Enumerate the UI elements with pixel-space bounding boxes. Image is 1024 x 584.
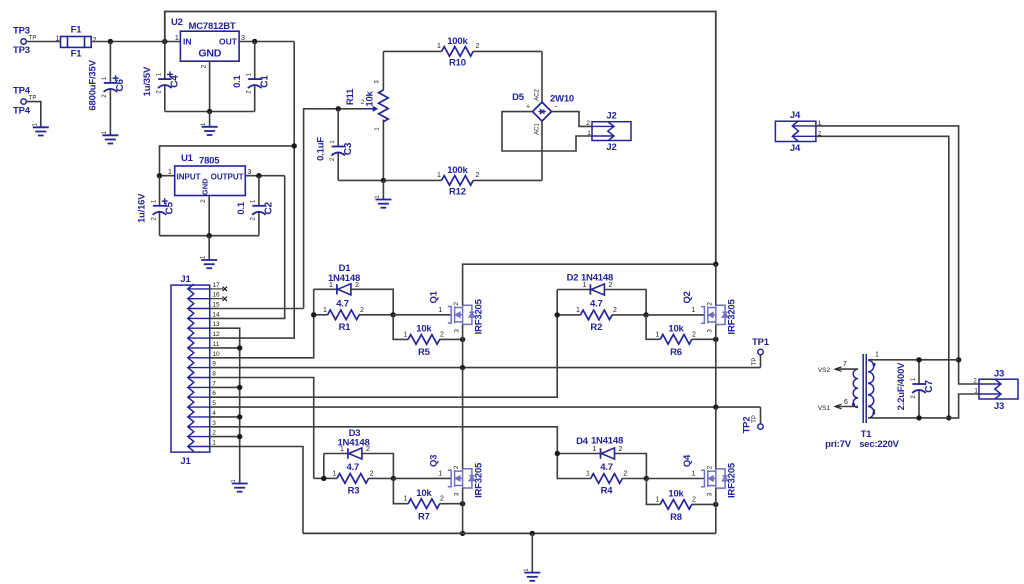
svg-text:IN: IN: [183, 37, 192, 47]
svg-text:4.7: 4.7: [600, 462, 613, 473]
svg-text:2: 2: [619, 446, 623, 453]
svg-text:1: 1: [438, 470, 442, 477]
capacitor C3 0.1uF: [337, 109, 339, 147]
svg-text:R4: R4: [601, 486, 614, 497]
svg-text:1: 1: [404, 332, 408, 339]
T1 pin 6 lead VS1: [836, 406, 858, 408]
wire gate Q1: [393, 314, 451, 316]
transistor Q3 IRF3205: [448, 469, 475, 488]
connector J3: [979, 379, 1018, 399]
node junction R11/R12/gnd: [381, 178, 386, 183]
wire Q2 source to midpoint B: [715, 325, 717, 408]
svg-text:1: 1: [656, 332, 660, 339]
wire TP4 to ground: [26, 102, 40, 127]
J1 pin 6: [188, 396, 210, 398]
node junction D2/R2 left: [555, 312, 560, 317]
resistor R4 4.7: [557, 454, 591, 479]
J1 pin 11: [188, 347, 210, 349]
svg-text:Q1: Q1: [429, 290, 440, 303]
capacitor C2 0.1: [258, 176, 260, 206]
wire D5 minus to J2 pin 2: [552, 112, 593, 127]
node junction R8/Q4 source: [713, 502, 718, 507]
svg-text:R1: R1: [339, 322, 352, 333]
node junction R7/Q3 source: [460, 501, 465, 506]
svg-text:2: 2: [355, 282, 359, 289]
svg-text:3: 3: [453, 329, 460, 333]
svg-text:10k: 10k: [668, 324, 684, 335]
svg-text:IRF3205: IRF3205: [473, 462, 484, 498]
regulator U1 7805: [175, 166, 246, 196]
wire pin 10 to D1 gate net: [210, 315, 314, 358]
svg-text:R8: R8: [670, 512, 682, 523]
wire D4 left leg: [557, 453, 600, 455]
svg-text:VS2: VS2: [818, 367, 831, 374]
diode D3 1N4148: [347, 448, 349, 458]
wire J4 pin 1 down right column: [816, 126, 979, 384]
svg-text:C7: C7: [924, 380, 935, 393]
transistor Q2 IRF3205: [701, 305, 728, 324]
svg-text:4.7: 4.7: [336, 299, 349, 310]
svg-text:2.2uF/400V: 2.2uF/400V: [896, 362, 907, 411]
wire R10 top branch: [383, 50, 441, 52]
test point TP1: [760, 355, 762, 368]
svg-text:1: 1: [875, 352, 879, 359]
svg-text:1: 1: [323, 307, 327, 314]
node junction C7 bottom: [916, 415, 921, 420]
regulator U2 MC7812BT: [180, 31, 239, 61]
svg-text:2: 2: [440, 496, 444, 503]
wire U2 ground rail: [165, 111, 255, 113]
diode D4 1N4148: [600, 448, 602, 458]
svg-text:12: 12: [212, 331, 220, 338]
svg-text:2: 2: [586, 120, 590, 127]
svg-text:sec:220V: sec:220V: [859, 439, 899, 450]
svg-text:1: 1: [212, 440, 216, 447]
J1 pin 15: [188, 308, 210, 310]
svg-text:OUTPUT: OUTPUT: [211, 173, 244, 182]
svg-text:10k: 10k: [365, 90, 376, 106]
node junction C3 tap: [336, 106, 341, 111]
svg-text:TP: TP: [29, 36, 37, 42]
svg-text:Q2: Q2: [682, 291, 693, 303]
svg-text:4: 4: [212, 410, 216, 417]
svg-text:2: 2: [706, 302, 713, 306]
svg-text:1u/35V: 1u/35V: [142, 66, 153, 96]
svg-text:2: 2: [609, 282, 613, 289]
wire R6 branch: [646, 315, 660, 339]
svg-text:D4: D4: [576, 436, 589, 447]
svg-text:TP3: TP3: [13, 45, 30, 56]
fuse F1: [61, 37, 92, 48]
ground under C6: [109, 133, 111, 135]
svg-text:MC7812BT: MC7812BT: [189, 21, 236, 32]
svg-text:2: 2: [440, 332, 444, 339]
svg-text:J3: J3: [994, 401, 1004, 412]
svg-text:13: 13: [212, 321, 220, 328]
wire bottom source rail: [303, 532, 716, 534]
svg-text:GND: GND: [198, 48, 221, 60]
svg-text:3: 3: [212, 420, 216, 427]
wire R5 branch: [393, 315, 408, 340]
wire D1 left leg: [313, 289, 315, 315]
wire D1 right leg: [351, 289, 393, 315]
connector J1: [171, 285, 210, 452]
svg-text:VS1: VS1: [818, 405, 831, 412]
svg-text:6: 6: [212, 390, 216, 397]
ground bottom center: [531, 533, 533, 572]
J1 bus junction pin 2: [210, 436, 240, 438]
svg-text:7: 7: [843, 361, 847, 368]
wire Q4 drain from midpoint B: [715, 407, 717, 469]
J1 pin 13: [188, 327, 210, 329]
capacitor C6 6800uF/35V: [109, 42, 111, 83]
wire Q3 source to bottom rail: [462, 488, 464, 533]
connector J2: [592, 122, 631, 141]
svg-text:5: 5: [212, 400, 216, 407]
test point TP2: [760, 407, 762, 424]
ground under R11/R12 node: [382, 180, 384, 199]
svg-text:16: 16: [212, 292, 220, 299]
J1 pin 8: [188, 377, 210, 379]
J1 pin 3: [188, 426, 210, 428]
svg-text:2: 2: [706, 465, 713, 469]
svg-text:1: 1: [56, 36, 60, 43]
svg-text:Q3: Q3: [429, 455, 440, 467]
J1 pin 2: [188, 436, 210, 438]
svg-text:1: 1: [656, 497, 660, 504]
wire pin 14 to 5V: [210, 176, 285, 319]
J1 pin 7: [188, 386, 210, 388]
svg-text:INPUT: INPUT: [177, 173, 201, 182]
svg-text:100k: 100k: [447, 165, 468, 176]
node junction top rail / J4 pin1: [956, 357, 961, 362]
T1 pin 7 lead VS2: [836, 368, 858, 370]
node junction J4 pin2 / bottom rail: [946, 415, 951, 420]
wire pin 8 to D3 gate net: [210, 378, 314, 479]
svg-text:-: -: [555, 102, 558, 111]
wire Q1 drain to rail: [463, 264, 716, 305]
svg-text:1: 1: [438, 307, 442, 314]
transistor Q4 IRF3205: [701, 469, 728, 488]
wire Q1 source to midpoint A: [462, 325, 464, 368]
svg-text:4: 4: [872, 410, 876, 417]
J1 bus junction pin 4: [210, 416, 240, 418]
wire pin 15 to R11 wiper: [210, 308, 304, 310]
svg-text:J1: J1: [180, 274, 191, 285]
svg-text:J4: J4: [790, 143, 801, 154]
test point TP3: [21, 39, 26, 44]
svg-text:J3: J3: [994, 369, 1004, 380]
J1 bus junction pin 7: [210, 386, 240, 388]
node junction at C5 tap: [157, 173, 162, 178]
svg-text:TP4: TP4: [13, 106, 31, 117]
wire C3 bottom to R12 node: [338, 179, 383, 181]
svg-text:2: 2: [692, 332, 696, 339]
svg-text:7805: 7805: [199, 156, 220, 167]
svg-text:2: 2: [453, 465, 460, 469]
svg-text:TP1: TP1: [752, 337, 770, 348]
wire J1 ground bus: [210, 328, 240, 483]
svg-text:15: 15: [212, 302, 220, 309]
transistor Q1 IRF3205: [448, 305, 475, 324]
svg-text:TP3: TP3: [13, 26, 30, 37]
svg-text:IRF3205: IRF3205: [727, 462, 738, 498]
J1 pin 14: [188, 317, 210, 319]
wire Q4 source to bottom rail: [715, 488, 717, 533]
J1 bus junction pin 11: [210, 347, 240, 349]
svg-text:F1: F1: [71, 49, 83, 60]
J1 pin 17: [188, 288, 210, 290]
svg-text:IRF3205: IRF3205: [727, 298, 738, 334]
resistor R1 4.7: [314, 314, 328, 316]
svg-text:R7: R7: [418, 512, 430, 523]
resistor R12 100k: [383, 179, 441, 181]
J1 pin 1: [188, 446, 210, 448]
node junction D2/R2 right: [643, 312, 648, 317]
svg-text:C5: C5: [164, 201, 175, 214]
svg-text:U1: U1: [181, 153, 194, 164]
svg-text:4.7: 4.7: [590, 299, 603, 310]
node junction at C2 tap: [256, 173, 261, 178]
J1 pin 5: [188, 406, 210, 408]
svg-text:1: 1: [437, 43, 441, 50]
ground under TP4: [40, 126, 42, 127]
svg-text:11: 11: [213, 341, 220, 348]
node junction D4/R4 right: [644, 476, 649, 481]
wire Q3 drain to midpoint A: [462, 368, 464, 469]
svg-text:1: 1: [586, 471, 590, 478]
svg-text:0.1uF: 0.1uF: [315, 137, 326, 161]
svg-text:pri:7V: pri:7V: [825, 439, 852, 450]
node junction U1 gnd: [207, 233, 212, 238]
svg-text:17: 17: [212, 282, 220, 289]
J1 pin 9: [188, 367, 210, 369]
wire U1 ground rail: [160, 235, 259, 237]
svg-text:2: 2: [370, 471, 374, 478]
svg-text:6: 6: [844, 399, 848, 406]
svg-text:1: 1: [593, 446, 597, 453]
J1 pin 17 no-connect stub: [210, 288, 223, 290]
svg-text:9: 9: [212, 361, 216, 368]
svg-text:D2: D2: [567, 273, 579, 284]
svg-text:C4: C4: [170, 75, 181, 88]
wire T1 secondary top rail: [868, 359, 959, 361]
svg-text:IRF3205: IRF3205: [473, 298, 484, 334]
svg-text:J1: J1: [180, 456, 191, 467]
svg-text:1: 1: [974, 388, 978, 395]
wire pin 5 to TP2 / bridge B midpoint: [210, 406, 761, 408]
node junction 12V branch: [292, 143, 297, 148]
J1 pin 16 no-connect stub: [210, 298, 223, 300]
wire battery + top rail: [165, 12, 716, 265]
node junction drain rail: [713, 262, 718, 267]
svg-text:3: 3: [707, 492, 714, 496]
capacitor C1 0.1: [254, 42, 256, 80]
svg-text:Q4: Q4: [682, 454, 693, 467]
svg-text:2: 2: [973, 378, 977, 385]
svg-text:2: 2: [93, 37, 97, 44]
svg-text:1u/16V: 1u/16V: [137, 193, 148, 223]
wire D4 right leg: [615, 454, 647, 479]
wire U1 output: [245, 175, 284, 177]
wire U1 GND pin: [208, 196, 210, 236]
ground under U1: [208, 236, 210, 260]
svg-text:GND: GND: [201, 178, 210, 195]
wire J4 pin 2 down left column: [816, 136, 949, 418]
svg-text:10k: 10k: [416, 324, 432, 335]
svg-text:U2: U2: [171, 17, 183, 28]
diode D2 1N4148: [589, 284, 591, 294]
capacitor C4 1u/35V: [164, 42, 166, 80]
node junction Q3 source rail: [460, 531, 465, 536]
wire D5 plus loop to J2 pin 1: [502, 112, 592, 151]
svg-text:1: 1: [404, 496, 408, 503]
node junction R5/Q1 source: [460, 337, 465, 342]
wire R8 branch: [646, 479, 660, 505]
svg-text:C1: C1: [260, 75, 271, 88]
node junction U2 gnd: [207, 109, 212, 114]
svg-text:C6: C6: [115, 79, 126, 92]
wire gate Q3: [393, 477, 451, 479]
J1 pin 10: [188, 357, 210, 359]
wire D3 left leg: [314, 477, 324, 479]
svg-text:3: 3: [707, 329, 714, 333]
node junction R6/Q2 source: [713, 337, 718, 342]
diode D1 1N4148: [336, 284, 338, 294]
svg-text:F1: F1: [71, 25, 83, 36]
node junction D3/R3 left: [321, 476, 326, 481]
svg-text:1: 1: [175, 35, 179, 42]
node junction D1/R1 right: [391, 312, 396, 317]
resistor R8 10k: [660, 500, 692, 510]
svg-text:AC2: AC2: [535, 89, 541, 101]
svg-text:C3: C3: [343, 142, 354, 155]
svg-text:7: 7: [212, 380, 216, 387]
svg-text:100k: 100k: [447, 36, 468, 47]
svg-text:R6: R6: [670, 347, 682, 358]
svg-text:2: 2: [212, 430, 216, 437]
svg-text:1: 1: [333, 471, 337, 478]
resistor R2 4.7: [557, 314, 580, 316]
svg-text:0.1: 0.1: [236, 201, 247, 215]
svg-text:2: 2: [613, 307, 617, 314]
svg-text:3: 3: [453, 492, 460, 496]
svg-text:10k: 10k: [668, 489, 684, 500]
svg-text:2: 2: [200, 199, 207, 203]
ground under U2: [209, 112, 211, 127]
svg-text:AC1: AC1: [535, 123, 541, 135]
svg-text:2W10: 2W10: [550, 94, 574, 105]
svg-text:TP: TP: [752, 358, 758, 366]
wire R7 branch: [393, 478, 408, 503]
svg-text:R10: R10: [449, 58, 466, 69]
wire D2 left leg: [556, 290, 558, 315]
wire pin 3 to D4 gate net: [210, 427, 558, 454]
svg-text:1: 1: [329, 282, 333, 289]
wire Q2 drain from rail: [715, 264, 717, 305]
svg-text:2: 2: [366, 446, 370, 453]
svg-text:2: 2: [624, 471, 628, 478]
svg-text:1: 1: [576, 307, 580, 314]
svg-text:R2: R2: [590, 322, 602, 333]
svg-text:D5: D5: [512, 92, 525, 103]
node junction D1/R1 left: [311, 312, 316, 317]
wire U2 output: [239, 41, 294, 43]
transformer T1: [853, 369, 858, 407]
svg-text:J4: J4: [790, 110, 801, 121]
svg-text:J2: J2: [606, 142, 616, 153]
connector J4: [775, 121, 816, 141]
resistor R5 10k: [408, 335, 440, 345]
wire T1 secondary bottom rail: [868, 394, 979, 418]
wire pin 12 to 12V: [210, 42, 295, 339]
capacitor C5 1u/16V: [159, 176, 161, 206]
svg-text:10: 10: [212, 351, 220, 358]
wire 12V feed to U1 input: [160, 146, 295, 176]
svg-text:14: 14: [212, 311, 220, 318]
wire U2 GND pin: [209, 61, 211, 111]
svg-text:R11: R11: [345, 88, 356, 105]
svg-text:1N4148: 1N4148: [591, 436, 623, 447]
J1 pin 16: [188, 298, 210, 300]
bridge rectifier D5 2W10: [533, 102, 552, 121]
node junction at C6 tap: [108, 39, 113, 44]
J1 pin 4: [188, 416, 210, 418]
svg-text:1: 1: [583, 282, 587, 289]
wire F1 to U2 input: [91, 41, 180, 43]
svg-text:2: 2: [476, 172, 480, 179]
wire D2 right leg: [605, 290, 647, 315]
node junction D3/R3 right: [391, 476, 396, 481]
svg-text:2: 2: [476, 43, 480, 50]
node junction at C4 tap: [162, 39, 167, 44]
node junction midpoint B: [713, 404, 718, 409]
svg-text:4.7: 4.7: [346, 462, 359, 473]
svg-text:10k: 10k: [416, 488, 432, 499]
svg-text:8: 8: [212, 371, 216, 378]
wire pin 6 to D2 gate net: [210, 315, 558, 397]
wire gate Q4: [646, 478, 704, 480]
svg-text:TP: TP: [752, 415, 758, 423]
svg-text:6800uF/35V: 6800uF/35V: [88, 59, 99, 110]
svg-text:R3: R3: [348, 486, 360, 497]
wire gate Q2: [646, 314, 704, 316]
ground under J1 bus: [239, 482, 241, 484]
J1 pin 12: [188, 337, 210, 339]
resistor R10 100k: [442, 47, 474, 57]
svg-text:2: 2: [692, 497, 696, 504]
svg-text:2: 2: [360, 307, 364, 314]
svg-text:1: 1: [691, 471, 695, 478]
svg-text:1: 1: [437, 172, 441, 179]
resistor R6 10k: [660, 335, 692, 345]
node junction at C1 tap: [252, 39, 257, 44]
resistor R7 10k: [408, 499, 440, 509]
test point TP4: [21, 99, 26, 104]
svg-text:2: 2: [453, 302, 460, 306]
svg-text:+: +: [526, 104, 530, 111]
wire pin 1 to source rail: [210, 447, 303, 534]
resistor R3 4.7: [324, 477, 337, 479]
svg-text:0.1: 0.1: [232, 74, 243, 88]
node junction D4 left: [555, 451, 560, 456]
svg-text:1: 1: [691, 307, 695, 314]
wire R11 wiper to pin15: [304, 109, 365, 309]
svg-text:J2: J2: [606, 111, 616, 122]
svg-text:R5: R5: [418, 347, 431, 358]
wire pin 9 to TP1 / bridge A midpoint: [210, 367, 761, 369]
wire TP3 to F1: [26, 41, 60, 43]
